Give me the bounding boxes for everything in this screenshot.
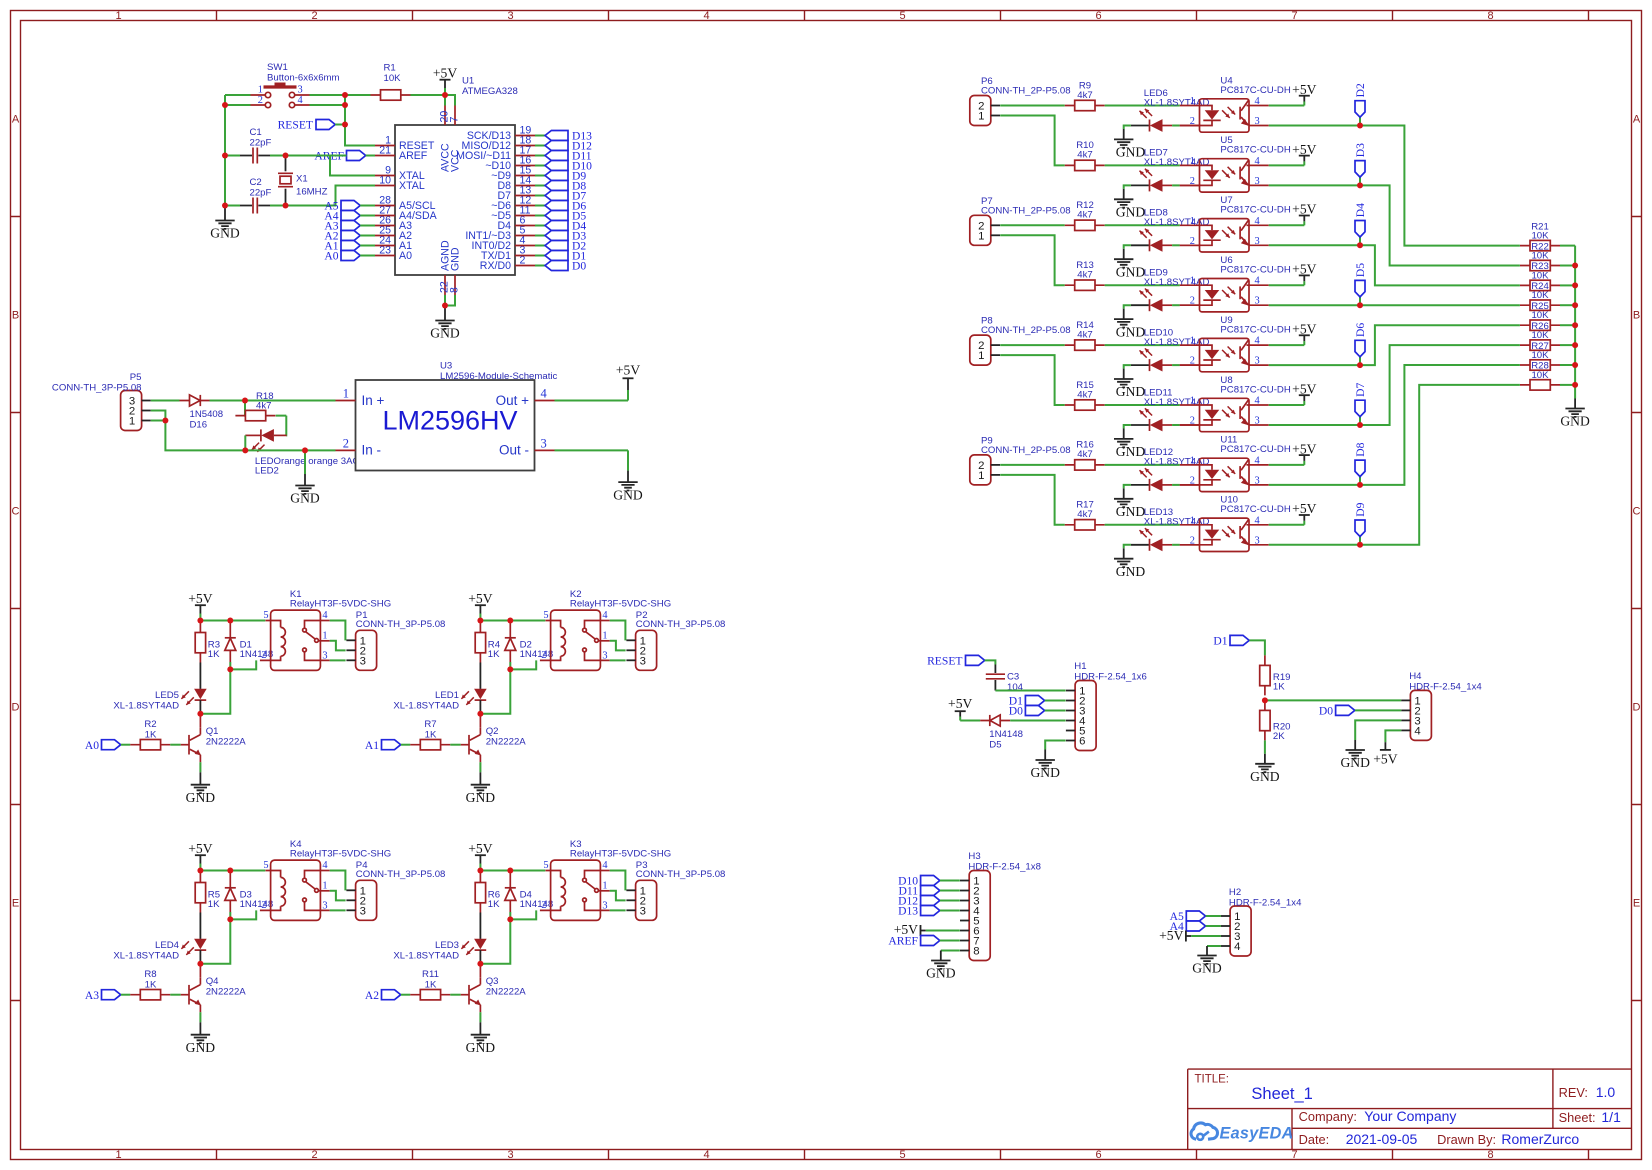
- svg-text:+5V: +5V: [188, 841, 212, 856]
- resistor R24: [1520, 300, 1560, 310]
- svg-text:1: 1: [322, 630, 327, 641]
- svg-text:1K: 1K: [488, 899, 500, 910]
- svg-text:2: 2: [311, 1149, 317, 1161]
- junction: [1357, 542, 1363, 548]
- net flag D12 (H3): [898, 895, 940, 908]
- resistor R28: [1520, 380, 1560, 390]
- svg-text:1: 1: [1190, 276, 1195, 287]
- svg-text:Q1: Q1: [206, 726, 219, 737]
- svg-text:2: 2: [541, 900, 546, 911]
- net flag D6: [545, 200, 586, 213]
- wire U1 to D1 flag: [535, 255, 545, 257]
- svg-text:LED2: LED2: [255, 465, 279, 476]
- ground at LED11: [1114, 429, 1145, 460]
- svg-text:4: 4: [298, 95, 304, 106]
- net flag A3: [324, 220, 360, 233]
- svg-text:XTAL: XTAL: [399, 180, 425, 192]
- wire K2.3 to P2.3: [610, 659, 626, 661]
- svg-text:4: 4: [1234, 941, 1240, 953]
- svg-text:A1: A1: [365, 739, 379, 752]
- wire A2 flag to R11: [401, 994, 410, 996]
- svg-text:+5V: +5V: [1292, 262, 1316, 277]
- wire +5V to H3.6: [926, 930, 960, 932]
- relay K4 HT3F-5VDC-SHG: [260, 860, 330, 920]
- svg-text:+5V: +5V: [1292, 82, 1316, 97]
- svg-text:Q2: Q2: [486, 726, 499, 737]
- svg-text:HDR-F-2.54_1x4: HDR-F-2.54_1x4: [1229, 898, 1302, 909]
- junction: [507, 618, 513, 624]
- wire U1 to D12 flag: [535, 145, 545, 147]
- svg-text:1: 1: [978, 230, 984, 242]
- svg-text:4: 4: [1255, 276, 1261, 287]
- svg-text:4: 4: [1255, 156, 1261, 167]
- net flag D4: [1354, 203, 1367, 237]
- svg-text:16MHZ: 16MHZ: [296, 187, 328, 198]
- transistor Q2 2N2222A: [461, 727, 481, 762]
- wire P8.1 to channel: [1000, 355, 1064, 405]
- relay K1 HT3F-5VDC-SHG: [260, 610, 330, 670]
- junction: [227, 666, 233, 672]
- connector P3 CONN-TH_3P-P5.08: [626, 880, 656, 920]
- LED LED7: [1131, 169, 1172, 192]
- net flag D0: [545, 260, 586, 273]
- resistor R3: [195, 623, 205, 663]
- ground at Q3: [466, 1022, 496, 1055]
- svg-text:In -: In -: [362, 443, 382, 458]
- svg-text:Company:: Company:: [1299, 1109, 1357, 1124]
- module U3 LM2596HV: [336, 361, 558, 471]
- wire SW1.3 to node: [310, 94, 346, 96]
- net flag D3: [1354, 143, 1367, 177]
- +5V supply at U10: [1292, 501, 1316, 525]
- junction: [1357, 362, 1363, 368]
- +5V supply at U3 output: [616, 363, 640, 401]
- svg-text:6: 6: [1079, 736, 1085, 748]
- net flag A3: [85, 989, 121, 1002]
- wire A4 to H2.2: [1206, 925, 1221, 927]
- svg-text:22pF: 22pF: [250, 188, 272, 199]
- optocoupler U6 PC817C-CU-DH: [1180, 276, 1269, 312]
- svg-text:Drawn By:: Drawn By:: [1437, 1132, 1496, 1147]
- wire K1.3 to P1.3: [330, 659, 346, 661]
- resistor R4: [475, 623, 485, 663]
- LED LED1: [461, 689, 486, 705]
- svg-text:GND: GND: [466, 790, 496, 805]
- wire K1.1 to P1.2: [330, 641, 346, 651]
- net flag D7: [545, 190, 586, 203]
- wire R23 to bus: [1560, 284, 1575, 286]
- wire U8.4 to +5V: [1269, 404, 1305, 406]
- wire A3 to U1: [360, 225, 375, 227]
- resistor R11: [410, 990, 450, 1000]
- svg-text:1: 1: [1190, 336, 1195, 347]
- svg-text:RESET: RESET: [927, 655, 962, 668]
- junction: [1572, 382, 1578, 388]
- wire to D6 flag: [1359, 357, 1361, 365]
- svg-text:1: 1: [1190, 515, 1195, 526]
- wire node to R1: [345, 94, 371, 96]
- svg-text:RX/D0: RX/D0: [480, 260, 511, 272]
- svg-text:GND: GND: [1116, 384, 1146, 399]
- net flag A1: [365, 739, 401, 752]
- connector P2 CONN-TH_3P-P5.08: [626, 630, 656, 670]
- resistor R9: [1065, 100, 1105, 110]
- ground at Q1: [186, 772, 216, 805]
- wire K1.4 to P1.1: [330, 621, 346, 641]
- svg-text:10K: 10K: [1531, 370, 1549, 381]
- svg-text:LED5: LED5: [155, 690, 179, 701]
- wire A4 to U1: [360, 215, 375, 217]
- wire +5V to D5: [960, 720, 980, 722]
- wire R24 to bus: [1560, 304, 1575, 306]
- junction: [222, 102, 228, 108]
- LED LED13: [1131, 528, 1172, 551]
- svg-text:3: 3: [1255, 356, 1260, 367]
- title block: [1188, 1069, 1632, 1149]
- wire A1 to U1: [360, 245, 375, 247]
- net flag D1 (H4): [1213, 635, 1249, 648]
- svg-text:B: B: [1633, 310, 1640, 322]
- svg-text:2021-09-05: 2021-09-05: [1346, 1131, 1418, 1147]
- svg-text:1: 1: [602, 880, 607, 891]
- svg-text:B: B: [12, 310, 19, 322]
- svg-text:5: 5: [263, 860, 268, 871]
- transistor Q4 2N2222A: [181, 977, 201, 1012]
- svg-text:4: 4: [1255, 455, 1261, 466]
- svg-text:GND: GND: [1030, 765, 1060, 780]
- wire U1 to D7 flag: [535, 195, 545, 197]
- svg-text:A0: A0: [399, 250, 412, 262]
- wire LED10 cathode to ground: [1124, 365, 1131, 369]
- wire P8.2 to channel: [1000, 344, 1064, 346]
- net flag D2: [545, 240, 586, 253]
- net flag D7: [1354, 383, 1367, 417]
- wire R16 to U11.1: [1105, 464, 1180, 466]
- svg-text:Button-6x6x6mm: Button-6x6x6mm: [267, 73, 340, 84]
- wire A3 flag to R8: [121, 994, 130, 996]
- svg-text:D: D: [1633, 702, 1641, 714]
- svg-text:CONN-TH_3P-P5.08: CONN-TH_3P-P5.08: [52, 382, 142, 393]
- net flag A0: [324, 250, 360, 263]
- svg-text:GND: GND: [290, 491, 320, 506]
- svg-text:5: 5: [543, 860, 548, 871]
- transistor Q1 2N2222A: [181, 727, 201, 762]
- svg-text:XL-1.8SYT4AD: XL-1.8SYT4AD: [113, 950, 179, 961]
- svg-text:+5V: +5V: [468, 841, 492, 856]
- svg-text:2N2222A: 2N2222A: [206, 987, 247, 998]
- junction: [222, 153, 228, 159]
- svg-text:2: 2: [1190, 475, 1195, 486]
- wire LED13 anode to U10.2: [1172, 544, 1180, 546]
- wire +5V rail K3: [480, 870, 545, 872]
- svg-text:D0: D0: [1009, 705, 1023, 718]
- wire R13 to U6.1: [1105, 284, 1180, 286]
- svg-text:1: 1: [1190, 156, 1195, 167]
- svg-text:+5V: +5V: [1292, 441, 1316, 456]
- ground at LED12: [1114, 488, 1145, 519]
- svg-text:X1: X1: [296, 174, 308, 185]
- svg-text:H1: H1: [1074, 661, 1086, 672]
- +5V supply at U6: [1292, 262, 1316, 286]
- svg-text:4: 4: [1255, 96, 1261, 107]
- connector P4 CONN-TH_3P-P5.08: [346, 880, 376, 920]
- svg-text:HDR-F-2.54_1x8: HDR-F-2.54_1x8: [968, 861, 1041, 872]
- wire to U1 power pins: [445, 95, 455, 106]
- wire D10 to H3.1: [940, 880, 960, 882]
- svg-text:4: 4: [1255, 216, 1261, 227]
- svg-text:8: 8: [1487, 10, 1493, 22]
- wire K3.4 to P3.1: [610, 871, 626, 891]
- svg-text:R7: R7: [424, 719, 436, 730]
- junction: [477, 961, 483, 967]
- net flag D12: [545, 140, 592, 153]
- svg-text:A0: A0: [324, 250, 338, 263]
- wire collector node K2: [480, 669, 510, 713]
- junction: [1357, 123, 1363, 129]
- net flag D6: [1354, 323, 1367, 357]
- header H4 HDR-F-2.54_1x4: [1401, 690, 1431, 740]
- svg-text:7: 7: [1291, 1149, 1297, 1161]
- svg-text:8: 8: [449, 287, 461, 293]
- wire to D3 flag: [1359, 177, 1361, 185]
- net flag AREF: [314, 150, 365, 163]
- junction: [1357, 242, 1363, 248]
- wire K2.4 to P2.1: [610, 621, 626, 641]
- wire reset net: [310, 95, 376, 146]
- svg-text:1K: 1K: [488, 649, 500, 660]
- net flag D11: [545, 150, 592, 163]
- svg-text:3: 3: [322, 650, 327, 661]
- svg-text:TITLE:: TITLE:: [1195, 1074, 1230, 1086]
- net flag D5: [1354, 263, 1367, 297]
- junction: [1357, 422, 1363, 428]
- svg-text:LM2596HV: LM2596HV: [382, 406, 517, 436]
- LED LED9: [1131, 289, 1172, 312]
- svg-text:4: 4: [602, 610, 608, 621]
- svg-text:10K: 10K: [1531, 270, 1549, 281]
- ground at LED7: [1114, 189, 1145, 220]
- net flag D10: [545, 160, 592, 173]
- svg-text:LED3: LED3: [435, 940, 459, 951]
- wire U11.3 to R27: [1269, 365, 1520, 485]
- svg-text:U1: U1: [462, 76, 474, 87]
- svg-text:1: 1: [322, 880, 327, 891]
- wire to D9 flag: [1359, 537, 1361, 545]
- svg-text:A: A: [12, 114, 20, 126]
- junction: [197, 961, 203, 967]
- svg-text:D9: D9: [1354, 502, 1367, 516]
- svg-text:C2: C2: [250, 177, 262, 188]
- svg-text:4k7: 4k7: [1077, 270, 1092, 281]
- wire U6.3 to R24: [1269, 304, 1520, 306]
- svg-text:2N2222A: 2N2222A: [486, 737, 527, 748]
- wire +5V rail K4: [200, 870, 265, 872]
- wire LED4 cathode: [199, 950, 201, 964]
- wire +5V to H2.3: [1191, 935, 1221, 937]
- svg-text:D0: D0: [1319, 705, 1333, 718]
- resistor R1: [371, 90, 411, 100]
- svg-text:5: 5: [899, 1149, 905, 1161]
- svg-text:10K: 10K: [1531, 251, 1549, 262]
- resistor R2: [130, 740, 170, 750]
- wire R26 to bus: [1560, 344, 1575, 346]
- svg-text:3: 3: [1255, 296, 1260, 307]
- junction: [1572, 263, 1578, 269]
- wire R27 to bus: [1560, 364, 1575, 366]
- svg-text:GND: GND: [613, 487, 643, 502]
- svg-text:1: 1: [978, 470, 984, 482]
- wire C3 to H1.1: [995, 690, 1065, 692]
- net flag A0: [85, 739, 121, 752]
- svg-text:1: 1: [978, 111, 984, 123]
- wire U1 to D11 flag: [535, 155, 545, 157]
- svg-text:PC817C-CU-DH: PC817C-CU-DH: [1220, 324, 1290, 335]
- wire U11.4 to +5V: [1269, 464, 1305, 466]
- junction: [1572, 302, 1578, 308]
- svg-text:GND: GND: [1560, 414, 1590, 429]
- svg-text:PC817C-CU-DH: PC817C-CU-DH: [1220, 384, 1290, 395]
- svg-text:3: 3: [602, 650, 607, 661]
- wire R6 to LED3: [479, 913, 481, 939]
- svg-text:10K: 10K: [384, 73, 402, 84]
- junction: [1572, 282, 1578, 288]
- svg-text:CONN-TH_2P-P5.08: CONN-TH_2P-P5.08: [981, 205, 1071, 216]
- connector P9 CONN-TH_2P-P5.08: [970, 455, 1000, 485]
- wire H2.4 to ground: [1207, 945, 1221, 947]
- wire U1 to D0 flag: [535, 265, 545, 267]
- +5V supply at H3.6 (sideways): [894, 922, 926, 937]
- svg-text:XL-1.8SYT4AD: XL-1.8SYT4AD: [393, 700, 459, 711]
- wire R18 to LED2 anode: [276, 416, 287, 436]
- wire P7.1 to channel: [1000, 235, 1064, 285]
- svg-text:4: 4: [1255, 336, 1261, 347]
- +5V supply at U9: [1292, 322, 1316, 346]
- svg-text:GND: GND: [1116, 504, 1146, 519]
- svg-text:SW1: SW1: [267, 62, 288, 73]
- wire R10 to U5.1: [1105, 164, 1180, 166]
- wire pulldown bus: [1574, 246, 1576, 399]
- wire P6.1 to channel: [1000, 116, 1064, 166]
- wire LED13 cathode to ground: [1124, 545, 1131, 549]
- wire collector node K4: [200, 919, 230, 963]
- junction: [227, 868, 233, 874]
- resistor R27: [1520, 360, 1560, 370]
- svg-text:GND: GND: [450, 247, 462, 271]
- svg-text:R11: R11: [422, 969, 439, 980]
- +5V supply at U8: [1292, 381, 1316, 405]
- wire D1 to R19: [1249, 640, 1265, 655]
- wire A5 to U1: [360, 205, 375, 207]
- resistor R5: [195, 873, 205, 913]
- svg-text:CONN-TH_3P-P5.08: CONN-TH_3P-P5.08: [356, 619, 446, 630]
- wire R1 to +5V node: [411, 94, 446, 96]
- wire divider to H4.1: [1265, 699, 1401, 701]
- wire K3.1 to P3.2: [610, 891, 626, 901]
- wire collector node K1: [200, 669, 230, 713]
- svg-text:PC817C-CU-DH: PC817C-CU-DH: [1220, 205, 1290, 216]
- resistor R8: [130, 990, 170, 1000]
- wire K4.1 to P4.2: [330, 891, 346, 901]
- svg-text:D16: D16: [190, 420, 208, 431]
- svg-text:Date:: Date:: [1299, 1132, 1330, 1147]
- svg-text:1: 1: [602, 630, 607, 641]
- wire R25 to bus: [1560, 324, 1575, 326]
- switch SW1: [251, 62, 340, 108]
- svg-text:10K: 10K: [1531, 310, 1549, 321]
- svg-text:1: 1: [1190, 96, 1195, 107]
- svg-text:LED4: LED4: [155, 940, 180, 951]
- ground at R20: [1250, 754, 1280, 784]
- resistor R18: [235, 410, 275, 420]
- wire U10.3 to R28: [1269, 385, 1520, 545]
- junction: [242, 398, 248, 404]
- svg-text:C1: C1: [250, 127, 262, 138]
- net flag D8: [1354, 442, 1367, 476]
- svg-text:4: 4: [322, 610, 328, 621]
- wire LED8 anode to U7.2: [1172, 244, 1180, 246]
- resistor R16: [1065, 460, 1105, 470]
- +5V supply at U5: [1292, 142, 1316, 166]
- svg-text:A: A: [1633, 114, 1641, 126]
- wire LED9 cathode to ground: [1124, 305, 1131, 309]
- wire D5 to H1.4: [1010, 720, 1065, 722]
- junction: [242, 447, 248, 453]
- svg-text:PC817C-CU-DH: PC817C-CU-DH: [1220, 444, 1290, 455]
- svg-text:PC817C-CU-DH: PC817C-CU-DH: [1220, 145, 1290, 156]
- svg-text:2: 2: [1190, 236, 1195, 247]
- svg-text:2: 2: [1190, 116, 1195, 127]
- relay K2 HT3F-5VDC-SHG: [540, 610, 610, 670]
- wire U1 to D4 flag: [535, 225, 545, 227]
- wire R7 to Q2 base: [450, 744, 460, 746]
- wire U1 to D3 flag: [535, 235, 545, 237]
- net flag D1: [545, 250, 586, 263]
- svg-text:3: 3: [602, 900, 607, 911]
- svg-text:GND: GND: [1250, 769, 1280, 784]
- svg-text:4k7: 4k7: [1077, 449, 1092, 460]
- wire LED12 cathode to ground: [1124, 485, 1131, 489]
- ground at LED8: [1114, 249, 1145, 280]
- wire K3 coil- to node: [510, 910, 536, 919]
- svg-text:R8: R8: [144, 969, 156, 980]
- svg-text:1K: 1K: [145, 980, 157, 991]
- diode D2 1N4148: [505, 621, 516, 663]
- wire D3 anode: [229, 912, 231, 919]
- wire H1.6 to ground: [1045, 741, 1065, 750]
- wire R21 to bus: [1560, 245, 1575, 247]
- junction: [197, 868, 203, 874]
- wire A5 to H2.1: [1206, 915, 1221, 917]
- wire D0 to H4.2: [1355, 709, 1401, 711]
- wire Q2 collector: [479, 714, 481, 728]
- diode D3 1N4148: [225, 871, 236, 913]
- net flag D10 (H3): [898, 875, 940, 888]
- svg-text:+5V: +5V: [468, 591, 492, 606]
- svg-text:4k7: 4k7: [1077, 210, 1092, 221]
- svg-text:D2: D2: [1354, 83, 1367, 97]
- ground at U1: [430, 306, 460, 341]
- svg-text:1N5408: 1N5408: [190, 409, 224, 420]
- LED LED4: [181, 939, 206, 955]
- svg-text:D1: D1: [1213, 635, 1227, 648]
- svg-text:4k7: 4k7: [1077, 150, 1092, 161]
- wire to D4 flag: [1359, 237, 1361, 245]
- svg-text:4k7: 4k7: [1077, 389, 1092, 400]
- connector P8 CONN-TH_2P-P5.08: [970, 335, 1000, 365]
- svg-text:2: 2: [1190, 296, 1195, 307]
- wire SW1.1 to left rail: [225, 94, 251, 96]
- svg-text:P5: P5: [130, 372, 142, 383]
